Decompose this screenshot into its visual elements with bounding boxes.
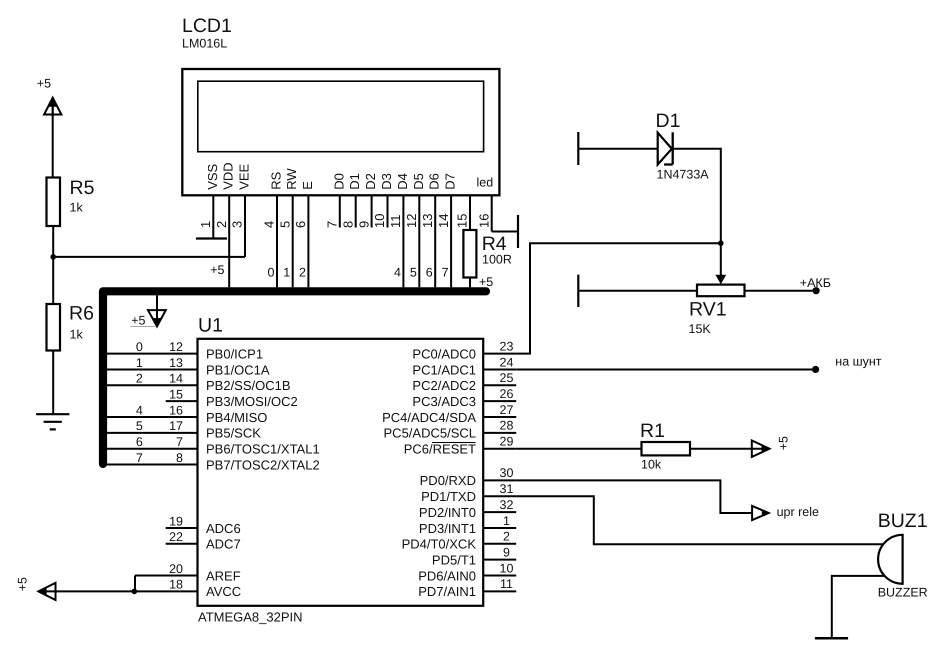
- svg-text:PD4/T0/XCK: PD4/T0/XCK: [402, 537, 477, 552]
- wire AREF down to AVCC net: [134, 576, 136, 592]
- bus entry label 5 (LCD side): [410, 266, 417, 280]
- svg-text:13: 13: [420, 214, 435, 228]
- svg-text:24: 24: [500, 355, 514, 369]
- svg-text:26: 26: [500, 387, 514, 401]
- bus entry label 6 (LCD side): [426, 266, 433, 280]
- resistor R5 1k: [47, 177, 95, 226]
- bus bar (thick): [103, 291, 486, 464]
- svg-text:VDD: VDD: [221, 162, 236, 189]
- U1 pin 12 (PB0/ICP1): [107, 340, 263, 362]
- U1 pin 20 (AREF): [135, 562, 241, 584]
- node divider junction: [50, 254, 56, 260]
- svg-text:12: 12: [404, 214, 419, 228]
- svg-text:PD6/AIN0: PD6/AIN0: [418, 568, 476, 583]
- U1 pin 9 (PD5/T1): [432, 545, 516, 567]
- svg-text:LM016L: LM016L: [182, 37, 227, 51]
- svg-text:22: 22: [169, 530, 183, 544]
- LCD1 pin 2 (VDD): [214, 162, 236, 287]
- svg-text:1: 1: [503, 514, 510, 528]
- svg-text:23: 23: [500, 339, 514, 353]
- power +5 terminal (left arrow at AVCC): [16, 577, 58, 600]
- svg-text:PD5/T1: PD5/T1: [432, 552, 476, 567]
- LCD1 pin 15: [455, 195, 470, 230]
- LCD1 pin 10 (D3): [372, 173, 394, 228]
- svg-text:32: 32: [500, 498, 514, 512]
- svg-text:12: 12: [169, 340, 183, 354]
- svg-text:15K: 15K: [689, 322, 712, 336]
- svg-text:PD0/RXD: PD0/RXD: [420, 473, 476, 488]
- svg-text:11: 11: [500, 577, 513, 591]
- svg-text:0: 0: [268, 266, 275, 280]
- svg-text:LCD1: LCD1: [182, 15, 232, 37]
- svg-text:14: 14: [169, 372, 183, 386]
- svg-text:1: 1: [198, 221, 213, 228]
- svg-text:100R: 100R: [482, 252, 512, 266]
- svg-text:7: 7: [176, 435, 183, 449]
- potentiometer RV1 15K: [689, 285, 745, 336]
- U1 pin 17 (PB5/SCK): [107, 419, 261, 441]
- svg-text:R5: R5: [70, 177, 95, 199]
- U1 pin 23 (PC0/ADC0): [412, 339, 516, 361]
- wire junction down to RV1 wiper: [715, 243, 726, 284]
- svg-text:PC0/ADC0: PC0/ADC0: [412, 346, 476, 361]
- svg-text:6: 6: [136, 435, 143, 449]
- svg-text:U1: U1: [198, 315, 223, 337]
- svg-text:14: 14: [436, 214, 451, 228]
- svg-text:PB4/MISO: PB4/MISO: [206, 410, 267, 425]
- wire +5 to R5: [52, 103, 54, 178]
- bus entry label 7 (LCD side): [442, 266, 449, 280]
- wire D1 cathode to junction: [673, 149, 721, 243]
- svg-text:VEE: VEE: [237, 163, 252, 189]
- svg-text:2: 2: [299, 266, 306, 280]
- svg-text:BUZZER: BUZZER: [878, 586, 928, 600]
- wire PC6/RESET (pin29) to R1: [516, 448, 641, 450]
- terminal (RV1 left): [577, 275, 579, 307]
- U1 pin 16 (PB4/MISO): [107, 403, 268, 425]
- svg-text:D4: D4: [395, 173, 410, 190]
- LCD1 pin 13 (D6): [420, 173, 442, 287]
- svg-text:31: 31: [500, 482, 514, 496]
- wire PD0/RXD (pin30) to upr rele arrow: [516, 480, 752, 513]
- svg-text:PC4/ADC4/SDA: PC4/ADC4/SDA: [382, 410, 476, 425]
- LCD1 pin 6 (E): [293, 181, 315, 287]
- svg-text:25: 25: [500, 371, 514, 385]
- svg-text:BUZ1: BUZ1: [878, 510, 928, 532]
- svg-text:7: 7: [136, 451, 143, 465]
- U1 pin 25 (PC2/ADC2): [412, 371, 516, 393]
- svg-text:4: 4: [394, 266, 401, 280]
- svg-text:8: 8: [176, 451, 183, 465]
- svg-text:E: E: [300, 181, 315, 190]
- wire R6 to ground: [52, 351, 54, 415]
- svg-text:PC6/RESET: PC6/RESET: [404, 442, 476, 457]
- svg-text:PC2/ADC2: PC2/ADC2: [412, 378, 476, 393]
- resistor R1 10k: [640, 420, 690, 472]
- U1 pin 32 (PD2/INT0): [419, 498, 516, 520]
- wire divider junction to LCD VDD: [53, 256, 229, 258]
- LCD1 pin 1 ground stub terminal: [196, 237, 227, 239]
- svg-text:6: 6: [426, 266, 433, 280]
- svg-text:D1: D1: [347, 173, 362, 190]
- svg-text:PB2/SS/OC1B: PB2/SS/OC1B: [206, 378, 291, 393]
- svg-text:15: 15: [169, 387, 183, 401]
- svg-text:D2: D2: [363, 173, 378, 190]
- svg-text:R6: R6: [69, 303, 94, 325]
- svg-text:7: 7: [325, 221, 340, 228]
- wire R1 to +5 arrow: [690, 448, 752, 450]
- U1 pin 28 (PC5/ADC5/SCL): [384, 419, 517, 441]
- LCD1 pin 8 (D1): [340, 173, 362, 228]
- svg-text:19: 19: [169, 514, 183, 528]
- bus entry label 1 (LCD side): [283, 266, 290, 280]
- svg-text:17: 17: [169, 419, 183, 433]
- svg-text:9: 9: [356, 221, 371, 228]
- node AVCC/AREF junction: [132, 589, 138, 595]
- svg-text:10: 10: [372, 214, 387, 228]
- svg-text:15: 15: [455, 214, 470, 228]
- svg-text:3: 3: [230, 221, 245, 228]
- svg-text:1k: 1k: [70, 328, 84, 342]
- LCD1 pin 1 (VSS): [198, 163, 220, 238]
- U1 pin 7 (PB6/TOSC1/XTAL1): [107, 435, 320, 457]
- led pin label: [477, 176, 494, 190]
- svg-text:D3: D3: [379, 173, 394, 190]
- svg-text:9: 9: [503, 545, 510, 559]
- resistor R4 100R: [463, 230, 511, 278]
- led terminal bar: [517, 215, 519, 248]
- svg-text:18: 18: [169, 578, 183, 592]
- LCD1 pin 4 (RS): [262, 171, 284, 287]
- svg-text:D6: D6: [427, 173, 442, 190]
- svg-text:20: 20: [169, 562, 183, 576]
- svg-text:1: 1: [136, 356, 143, 370]
- svg-text:PB1/OC1A: PB1/OC1A: [206, 362, 270, 377]
- wire R5 to R6: [52, 226, 54, 304]
- U1 pin 31 (PD1/TXD): [421, 482, 516, 504]
- op IC U1 ATMEGA8_32PIN body: [198, 315, 484, 625]
- LCD1 pin 16: [476, 195, 491, 231]
- svg-text:VSS: VSS: [205, 163, 220, 189]
- U1 pin 1 (PD3/INT1): [419, 514, 516, 536]
- svg-text:D7: D7: [443, 173, 458, 190]
- svg-text:PD1/TXD: PD1/TXD: [421, 489, 476, 504]
- svg-text:4: 4: [136, 403, 143, 417]
- U1 pin 11 (PD7/AIN1): [418, 577, 516, 599]
- svg-text:30: 30: [500, 466, 514, 480]
- svg-text:PC1/ADC1: PC1/ADC1: [412, 362, 476, 377]
- signal terminal upr rele arrow: [752, 505, 819, 520]
- svg-text:27: 27: [500, 403, 514, 417]
- svg-text:6: 6: [293, 221, 308, 228]
- bus entry label 4 (LCD side): [394, 266, 401, 280]
- svg-text:ADC6: ADC6: [206, 521, 241, 536]
- svg-text:+5: +5: [777, 436, 791, 450]
- svg-text:led: led: [477, 176, 494, 190]
- svg-text:5: 5: [277, 221, 292, 228]
- svg-text:RS: RS: [269, 171, 284, 189]
- U1 pin 10 (PD6/AIN0): [418, 561, 516, 583]
- diode D1 1N4733A (zener): [656, 110, 710, 182]
- svg-text:8: 8: [340, 221, 355, 228]
- U1 pin 15 (PB3/MOSI/OC2): [166, 387, 298, 409]
- power +5 terminal (down arrow at bus): [131, 295, 166, 327]
- svg-text:PB0/ICP1: PB0/ICP1: [206, 346, 263, 361]
- node "на шунт" terminal dot: [812, 355, 882, 373]
- svg-text:28: 28: [500, 419, 514, 433]
- svg-text:PD3/INT1: PD3/INT1: [419, 521, 476, 536]
- svg-text:16: 16: [476, 214, 491, 228]
- LCD1 pin 14 (D7): [436, 173, 458, 287]
- svg-text:29: 29: [500, 435, 514, 449]
- LCD1 pin 5 (RW): [277, 168, 299, 288]
- wire buzzer bottom to ground: [832, 576, 885, 637]
- svg-text:PD2/INT0: PD2/INT0: [419, 505, 476, 520]
- U1 pin 13 (PB1/OC1A): [107, 356, 270, 378]
- svg-text:AVCC: AVCC: [206, 584, 241, 599]
- U1 pin 27 (PC4/ADC4/SDA): [382, 403, 516, 425]
- svg-text:4: 4: [262, 221, 277, 228]
- wire PD1/TXD (pin31) to buzzer: [516, 496, 883, 544]
- ground (buzzer): [815, 637, 848, 640]
- svg-text:+5: +5: [479, 275, 493, 289]
- svg-text:5: 5: [136, 419, 143, 433]
- svg-text:D1: D1: [656, 110, 681, 132]
- U1 pin 26 (PC3/ADC3): [412, 387, 516, 409]
- ground (left): [36, 414, 69, 429]
- svg-text:PB5/SCK: PB5/SCK: [206, 426, 261, 441]
- wire PC0/ADC0 (pin23) up to zener/pot junction: [516, 243, 719, 353]
- terminal (D1 anode input): [577, 132, 579, 165]
- svg-text:5: 5: [410, 266, 417, 280]
- resistor R6 1k: [47, 303, 94, 351]
- svg-text:PC3/ADC3: PC3/ADC3: [412, 394, 476, 409]
- U1 pin 2 (PD4/T0/XCK): [402, 530, 517, 552]
- svg-text:13: 13: [169, 356, 183, 370]
- LCD1 pin 9 (D2): [356, 173, 378, 228]
- U1 pin 14 (PB2/SS/OC1B): [107, 372, 291, 394]
- wire PC1/ADC1 (pin24) to shunt: [516, 368, 812, 370]
- wire LCD pin16 to led terminal: [492, 231, 518, 233]
- power +5 terminal (top left): [37, 77, 62, 117]
- svg-text:PC5/ADC5/SCL: PC5/ADC5/SCL: [384, 426, 476, 441]
- svg-text:+5: +5: [131, 314, 145, 328]
- U1 pin 22 (ADC7): [166, 530, 241, 552]
- svg-text:D5: D5: [411, 173, 426, 190]
- svg-text:D0: D0: [331, 173, 346, 190]
- bus entry label 2 (LCD side): [299, 266, 306, 280]
- svg-text:2: 2: [503, 530, 510, 544]
- svg-text:PD7/AIN1: PD7/AIN1: [418, 584, 476, 599]
- svg-text:1: 1: [283, 266, 290, 280]
- LCD1 pin 11 (D4): [388, 173, 410, 287]
- svg-text:ADC7: ADC7: [206, 537, 241, 552]
- U1 pin 18 (AVCC): [45, 578, 242, 600]
- svg-text:+5: +5: [16, 577, 30, 591]
- bus entry label 0 (LCD side): [268, 266, 275, 280]
- node +AKB terminal dot: [800, 276, 831, 295]
- LCD1 pin 12 (D5): [404, 173, 426, 287]
- svg-text:0: 0: [136, 340, 143, 354]
- net label +5 at LCD pin 2: [210, 263, 224, 277]
- LCD1 pin 3 (VEE): [229, 163, 251, 256]
- svg-text:PB7/TOSC2/XTAL2: PB7/TOSC2/XTAL2: [206, 457, 320, 472]
- svg-text:PB3/MOSI/OC2: PB3/MOSI/OC2: [206, 394, 298, 409]
- LCD1 pin 7 (D0): [325, 173, 347, 228]
- svg-text:7: 7: [442, 266, 449, 280]
- svg-text:16: 16: [169, 403, 183, 417]
- svg-text:+5: +5: [37, 77, 51, 91]
- U1 pin 8 (PB7/TOSC2/XTAL2): [107, 451, 320, 473]
- svg-text:PB6/TOSC1/XTAL1: PB6/TOSC1/XTAL1: [206, 442, 320, 457]
- svg-text:R1: R1: [640, 420, 665, 442]
- svg-text:ATMEGA8_32PIN: ATMEGA8_32PIN: [198, 609, 303, 624]
- U1 pin 29 (PC6/RESET): [404, 435, 516, 457]
- U1 pin 19 (ADC6): [166, 514, 241, 536]
- svg-text:RV1: RV1: [689, 299, 727, 321]
- svg-text:11: 11: [388, 215, 403, 229]
- wire RV1 to +AKB: [745, 290, 813, 292]
- svg-text:1N4733A: 1N4733A: [657, 167, 710, 181]
- svg-text:RW: RW: [284, 168, 299, 190]
- svg-text:+5: +5: [210, 263, 224, 277]
- svg-text:10: 10: [500, 561, 514, 575]
- svg-text:на шунт: на шунт: [835, 355, 882, 369]
- LCD LCD1 LM016L: [182, 15, 499, 195]
- svg-text:AREF: AREF: [206, 568, 241, 583]
- svg-text:1k: 1k: [70, 201, 84, 215]
- svg-text:+АКБ: +АКБ: [800, 276, 831, 290]
- svg-text:2: 2: [214, 221, 229, 228]
- wire R4 to bus (+5): [470, 275, 493, 289]
- U1 pin 30 (PD0/RXD): [420, 466, 517, 488]
- svg-text:upr rele: upr rele: [777, 505, 819, 519]
- buzzer BUZ1: [878, 510, 928, 599]
- wire terminal to RV1: [578, 290, 697, 292]
- node zener/pot junction: [718, 240, 724, 246]
- svg-text:10k: 10k: [641, 458, 662, 472]
- svg-text:2: 2: [136, 372, 143, 386]
- wire terminal to D1: [578, 148, 657, 150]
- power +5 terminal (right arrow at R1): [751, 436, 791, 457]
- U1 pin 24 (PC1/ADC1): [412, 355, 516, 377]
